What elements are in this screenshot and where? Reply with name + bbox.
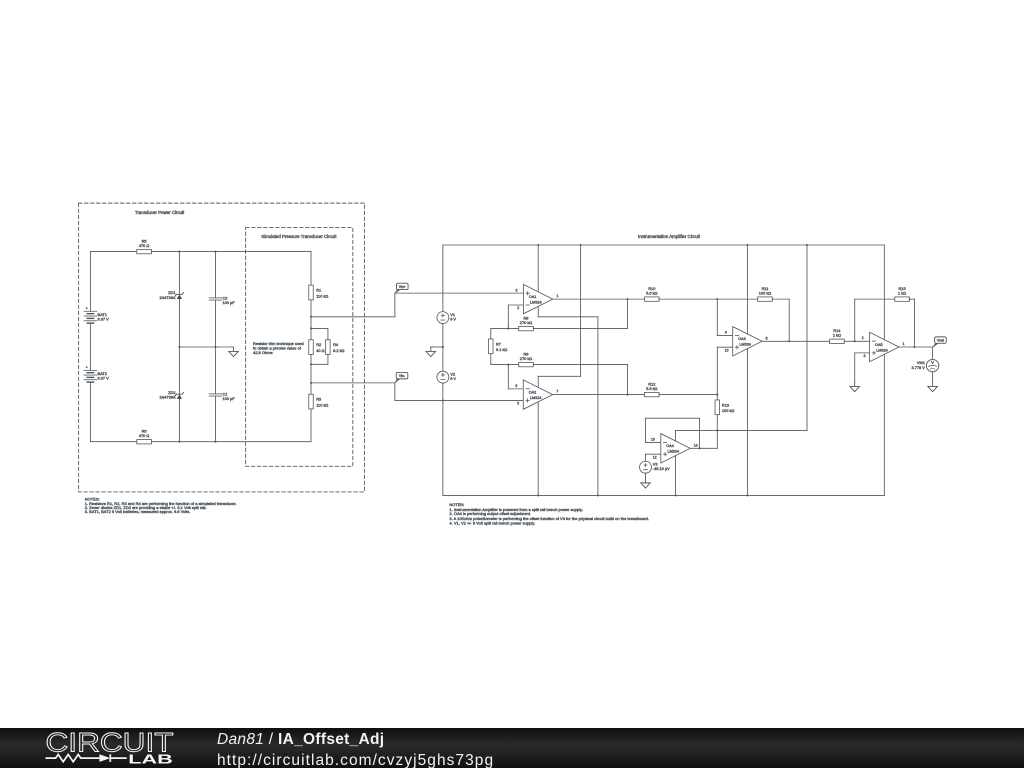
svg-text:V: V <box>931 360 934 365</box>
resistor R8 <box>519 326 534 330</box>
wire OA4 V+ stub <box>674 430 676 441</box>
ground <box>229 347 239 357</box>
svg-text:5.6 kΩ: 5.6 kΩ <box>646 386 657 391</box>
resistor R4 <box>326 340 330 355</box>
wire zener branch <box>178 252 180 442</box>
resistor R9 <box>519 362 534 366</box>
wire OA2 V- stub <box>537 402 539 495</box>
svg-text:9.37 V: 9.37 V <box>98 376 110 381</box>
resistor R6 <box>137 440 152 444</box>
wire OA4 feedback loop <box>646 441 661 443</box>
svg-text:3: 3 <box>516 288 518 292</box>
svg-text:10: 10 <box>725 348 729 352</box>
svg-text:R3: R3 <box>316 397 321 402</box>
svg-text:OA3: OA3 <box>738 337 746 341</box>
svg-text:R2: R2 <box>316 342 321 347</box>
ground <box>426 347 436 357</box>
wire Vin- net <box>311 382 395 384</box>
svg-text:1: 1 <box>556 294 558 298</box>
resistor R13 <box>715 400 719 415</box>
svg-text:3.778 V: 3.778 V <box>911 365 925 370</box>
svg-text:OA4: OA4 <box>666 444 674 448</box>
node flag Vout <box>933 343 938 347</box>
resistor R12 <box>644 392 659 396</box>
dashed box: Simulated Pressure Transducer Circuit <box>246 228 353 467</box>
wire OA5 V- stub <box>883 354 885 495</box>
svg-text:3: 3 <box>864 354 866 358</box>
svg-text:2: 2 <box>862 336 864 340</box>
svg-text:Vin+: Vin+ <box>399 285 406 289</box>
svg-text:9 V: 9 V <box>450 316 456 321</box>
voltage source V1 <box>437 312 449 324</box>
svg-text:2: 2 <box>517 306 519 310</box>
wire OA2 pin6 riser <box>508 388 523 390</box>
resistor R7 <box>489 339 493 354</box>
dashed box: Transducer Power Circuit <box>79 203 365 492</box>
voltage source V3 <box>640 461 652 473</box>
wire OA3 V+ stub <box>746 245 748 334</box>
svg-text:VM1: VM1 <box>917 360 925 365</box>
svg-text:5: 5 <box>517 402 519 406</box>
svg-text:Simulated Pressure Transducer: Simulated Pressure Transducer Circuit <box>261 234 337 239</box>
resistor R15 <box>895 297 910 301</box>
svg-text:1N4739A: 1N4739A <box>159 395 176 400</box>
svg-text:LM324: LM324 <box>530 301 542 305</box>
logo resistor + diode symbol <box>46 754 127 762</box>
svg-text:110 kΩ: 110 kΩ <box>316 402 328 407</box>
wire OA5 V+ stub <box>883 245 885 340</box>
battery BAT1 <box>84 310 97 312</box>
svg-text:3. A 10Kohm potentiometer is p: 3. A 10Kohm potentiometer is performing … <box>449 516 649 521</box>
svg-text:2. OA4 is performing output of: 2. OA4 is performing output offset adjus… <box>449 511 531 516</box>
svg-text:8.2 kΩ: 8.2 kΩ <box>333 348 344 353</box>
capacitor C2 <box>209 297 222 299</box>
schematic title text <box>217 731 384 749</box>
voltage source V2 <box>437 371 449 383</box>
wire left supply chain <box>442 245 444 312</box>
svg-text:7: 7 <box>556 390 558 394</box>
wire between batteries <box>89 323 91 370</box>
ground <box>641 478 651 488</box>
op-amp OA1 <box>523 284 552 313</box>
wire V3 to ground <box>644 473 646 478</box>
resistor R1 <box>309 285 313 300</box>
svg-text:42.8 Ohms: 42.8 Ohms <box>253 350 273 355</box>
CircuitLab logo <box>0 728 200 768</box>
resistor R5 <box>137 249 152 253</box>
voltmeter VM1 <box>932 347 934 359</box>
svg-text:9.37 V: 9.37 V <box>98 317 110 322</box>
wire OA2 output row <box>553 394 645 396</box>
svg-text:40 Ω: 40 Ω <box>316 348 324 353</box>
wire riser x807 to top rail <box>806 245 808 430</box>
svg-text:1 kΩ: 1 kΩ <box>833 333 841 338</box>
svg-text:9.1 kΩ: 9.1 kΩ <box>496 347 507 352</box>
svg-text:270 kΩ: 270 kΩ <box>520 320 533 325</box>
svg-text:9: 9 <box>725 331 727 335</box>
wire R4 parallel branch <box>311 327 328 329</box>
wire OA3 pin10 riser <box>716 347 718 394</box>
wire OA3 output row <box>762 340 829 342</box>
zener diode ZD1 <box>177 295 182 299</box>
svg-text:470 Ω: 470 Ω <box>139 433 150 438</box>
zener diode ZD2 <box>177 395 182 399</box>
wire OA1 pin2 riser <box>508 304 523 306</box>
resistor R13 branch <box>716 395 718 400</box>
wire OA4 vplus row <box>676 429 807 431</box>
wire OA5 output row <box>899 346 933 348</box>
svg-text:R13: R13 <box>722 402 729 407</box>
wire Vin+ net <box>311 316 395 318</box>
svg-text:OA1: OA1 <box>529 295 537 299</box>
wire gain network R7 <box>490 329 492 339</box>
svg-text:R7: R7 <box>496 341 501 346</box>
wire BAT2 to bottom rail <box>89 382 91 442</box>
svg-text:6: 6 <box>515 384 517 388</box>
svg-text:Instrumentation Amplifier Circ: Instrumentation Amplifier Circuit <box>638 234 701 239</box>
svg-text:ZD2: ZD2 <box>168 390 175 395</box>
svg-text:ZD1: ZD1 <box>168 290 175 295</box>
svg-text:1 kΩ: 1 kΩ <box>898 290 906 295</box>
svg-text:3. BAT1, BAT2 9 Volt batteries: 3. BAT1, BAT2 9 Volt batteries, measured… <box>85 509 191 514</box>
svg-text:1: 1 <box>903 342 905 346</box>
resistor R10 <box>644 297 659 301</box>
wire R9 row <box>491 364 519 366</box>
op-amp OA3 <box>733 327 762 356</box>
svg-text:-45.16 µV: -45.16 µV <box>653 466 670 471</box>
wire OA1 V- routing <box>537 306 539 316</box>
svg-text:R4: R4 <box>333 342 339 347</box>
svg-text:100 µF: 100 µF <box>222 396 235 401</box>
svg-text:LM324: LM324 <box>876 348 888 352</box>
wire R10 to OA3 <box>659 298 758 300</box>
wire OA1 output row <box>553 298 645 300</box>
svg-text:12: 12 <box>653 455 657 459</box>
wire OA3 pin9 riser <box>716 299 718 335</box>
node flag Vin+ <box>395 290 400 294</box>
svg-text:1N4739A: 1N4739A <box>159 295 176 300</box>
wire R8 feedback riser <box>626 299 628 328</box>
wire bottom power rail <box>443 494 884 496</box>
svg-text:270 kΩ: 270 kΩ <box>520 356 533 361</box>
svg-text:Vin-: Vin- <box>399 374 406 378</box>
wire OA5 pin2 node <box>854 299 856 341</box>
svg-text:470 Ω: 470 Ω <box>139 243 150 248</box>
wire ground stub V1 V2 <box>431 346 443 348</box>
svg-text:LM324: LM324 <box>530 396 542 400</box>
svg-text:R1: R1 <box>316 288 321 293</box>
wire OA5 pin3 to ground <box>855 352 870 354</box>
svg-text:8: 8 <box>766 336 768 340</box>
op-amp OA5 <box>870 332 899 361</box>
wire top rail left block <box>90 251 136 253</box>
svg-text:14: 14 <box>694 443 698 447</box>
svg-text:100 kΩ: 100 kΩ <box>722 408 735 413</box>
resistor R3 <box>309 394 313 409</box>
footer bar <box>0 728 1024 768</box>
svg-text:100 kΩ: 100 kΩ <box>759 290 772 295</box>
wire VM1 to ground <box>932 372 934 382</box>
wire V- downrun x598 <box>597 317 599 496</box>
wire OA1 V+ stub <box>537 245 539 292</box>
resistor R11 <box>758 297 773 301</box>
svg-text:OA2: OA2 <box>529 391 537 395</box>
wire OA4 pin12 row <box>646 453 661 455</box>
ground <box>928 382 938 392</box>
schematic url text <box>217 752 494 770</box>
node flag Vin- <box>395 379 400 383</box>
svg-text:110 kΩ: 110 kΩ <box>316 293 328 298</box>
wire transducer divider <box>310 252 312 286</box>
resistor R14 <box>830 339 845 343</box>
wire OA4 output riser <box>716 430 718 448</box>
op-amp OA2 <box>523 380 552 409</box>
svg-text:+: + <box>86 307 88 311</box>
svg-text:4. V1, V2 +/- 9 Volt split rai: 4. V1, V2 +/- 9 Volt split rail bench po… <box>449 521 535 526</box>
svg-text:+: + <box>86 366 88 370</box>
svg-text:LM324: LM324 <box>667 450 679 454</box>
svg-text:Vout: Vout <box>937 339 944 343</box>
wire OA2 V+ routing <box>538 375 580 377</box>
svg-text:Transducer Power Circuit: Transducer Power Circuit <box>135 210 185 215</box>
wire left battery chain <box>89 252 91 312</box>
svg-text:100 µF: 100 µF <box>222 300 235 305</box>
wire middle rail to ground <box>179 346 233 348</box>
wire R12 to R13 node <box>659 394 717 396</box>
wire OA3 V- stub <box>746 348 748 495</box>
wire capacitor branch <box>214 252 216 298</box>
resistor R2 <box>309 340 313 355</box>
capacitor C1 <box>209 393 222 395</box>
svg-text:LAB: LAB <box>128 751 173 766</box>
wire top power rail <box>443 244 884 246</box>
wire R15 feedback row <box>855 298 896 300</box>
svg-text:9 V: 9 V <box>450 376 456 381</box>
svg-text:LM324: LM324 <box>739 343 751 347</box>
svg-text:13: 13 <box>651 438 655 442</box>
wire R8 row <box>491 328 519 330</box>
svg-text:OA5: OA5 <box>875 343 883 347</box>
wire OA4 V- stub <box>674 456 676 496</box>
wire R9 feedback riser <box>626 365 628 395</box>
op-amp OA4 <box>661 434 690 463</box>
battery BAT2 <box>84 369 97 371</box>
wire bottom rail left block <box>90 441 136 443</box>
wire riser to top rail x580 <box>580 245 582 376</box>
svg-text:5.6 kΩ: 5.6 kΩ <box>646 290 657 295</box>
svg-text:NOTES:: NOTES: <box>449 502 464 507</box>
ground <box>850 382 860 392</box>
